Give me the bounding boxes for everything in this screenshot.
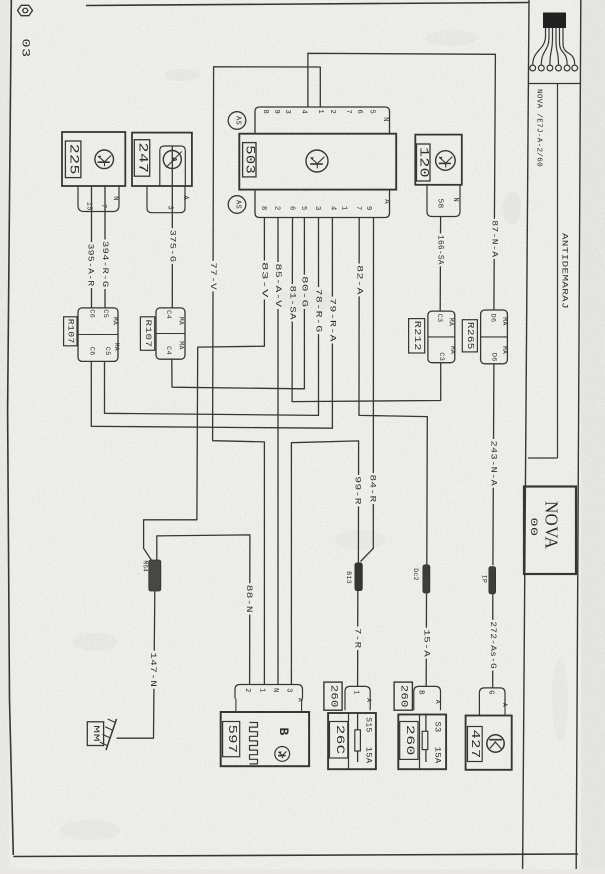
wire 394-R-G from 225 pin 7 to R107 C5 [104, 186, 106, 308]
fuse S3 element [425, 715, 427, 763]
splice M64 [149, 560, 161, 591]
connector R265 shell D6 [481, 310, 508, 364]
503 connector A row shell [255, 190, 390, 218]
NOVA title box [524, 487, 576, 575]
225 indicator circle symbol [95, 150, 114, 169]
R107 mid divider [78, 334, 118, 336]
lamp unit 225 box [62, 132, 125, 186]
wire 395-A-R from 225 pin 15 to R107 C6 [91, 186, 93, 308]
AS marker circle upper [228, 112, 246, 130]
fuse box S15 divider [348, 713, 350, 769]
wire 79-R-A from 503 A pin 4 to R107 C6 [91, 218, 332, 429]
fuse unit 260 label box left [324, 682, 342, 710]
wire 272-As-G from splice IP to unit 427 [492, 594, 494, 689]
wire 82-A from 503 A pin 7 to splice D62 [359, 218, 427, 566]
503 circle symbol [306, 150, 328, 172]
connector icon pin circles and wires [533, 28, 546, 65]
connector bracket of 597 [235, 685, 303, 699]
wire 7-R from splice B13 to fuse S15 [357, 591, 359, 687]
503 connector N row shell [255, 107, 390, 134]
wire 147-N from splice M64 to ground MM [117, 591, 155, 738]
597 motor circle [275, 747, 290, 762]
247 actuation arrow [166, 152, 182, 168]
wire 84-R from 503 A pin 9 to splice B13 [361, 218, 374, 562]
wire 15-A from splice D62 to fuse S3 [425, 594, 427, 687]
R265 label box [462, 320, 477, 352]
connector bracket of 247 [147, 186, 185, 213]
fuse box S3 [398, 715, 446, 770]
120 label box [417, 144, 431, 181]
wire 99-R from splice B13 to relay 597 [291, 441, 358, 685]
connector icon cell divider [529, 83, 581, 85]
597 label box [223, 722, 240, 757]
ground symbol MM [106, 719, 117, 750]
connector bracket of 225 [78, 186, 119, 212]
R107b mid divider [156, 333, 185, 335]
title strip right border [576, 0, 581, 869]
fuse box S3 divider [419, 715, 421, 770]
frame bottom border [13, 854, 578, 857]
connector R212 shell C3 [428, 311, 455, 363]
247 sensor circle [163, 151, 181, 169]
26C label box [330, 722, 348, 759]
wire 77-V from 503 N pin 1 to relay 597 pin 1 [213, 67, 321, 685]
title strip column end tick [528, 457, 558, 459]
427 clock circle K [487, 735, 504, 752]
fuse S15 element [357, 713, 359, 762]
corner hexagon mark [18, 5, 33, 15]
R212 label box [409, 319, 425, 353]
title strip column divider [557, 84, 559, 458]
fuse unit 260 label box right [394, 682, 412, 710]
splice IP [489, 567, 496, 594]
relay 597 box [221, 712, 309, 766]
260 label box inner [400, 722, 418, 760]
wire 81-SA from 503 A pin 6 to connector C3 [292, 218, 441, 402]
fuse box S15 [328, 713, 376, 769]
wire 88-N from splice M64 to relay 597 pin 2 [157, 535, 250, 685]
splice B13 [355, 563, 362, 591]
switch unit 120 box [415, 135, 462, 185]
ground label box MM [87, 722, 103, 746]
frame left border [8, 0, 14, 855]
connector R107 shell C5 C6 [78, 308, 118, 362]
title strip left border [523, 0, 529, 869]
connector R107 shell C4 [156, 308, 185, 359]
connector bracket of fuse S3 [414, 686, 441, 710]
225 label box [65, 141, 81, 178]
splice D62 [423, 565, 430, 593]
wire 80-G from 503 A pin 5 to C4 [172, 218, 305, 389]
connector bracket of 427 [479, 688, 505, 716]
597 coil symbol [250, 723, 258, 764]
unit 427 box [466, 716, 512, 770]
427 label box [468, 727, 483, 762]
scan smudges [60, 30, 568, 840]
247 inner shell [160, 146, 186, 186]
control unit 503 box [239, 134, 396, 190]
sensor unit 247 box [132, 133, 192, 186]
R265 mid divider [481, 336, 508, 338]
247 label box [134, 140, 149, 177]
120 circle symbol [436, 151, 456, 171]
frame top border [86, 3, 529, 6]
wire 375-G from 247 pin 3 to C4 [171, 186, 173, 308]
wire 166-SA from 120 pin 58 to connector C3 [439, 217, 441, 312]
R212 mid divider [428, 336, 455, 338]
connector bracket of fuse S15 [345, 686, 370, 710]
connector icon body [543, 13, 566, 29]
503 A row pins [259, 199, 390, 210]
wire 243-N-A from connector D6 to splice IP [493, 364, 494, 566]
R107b label box [140, 317, 154, 351]
R107 label box [64, 317, 77, 346]
wire 85-A-V from 503 A pin 2 to relay 597 [277, 218, 279, 685]
wire 83-V from 503 A pin 8 to splice M64 [144, 218, 265, 562]
247 sensor wire through circle [171, 146, 173, 186]
wire 78-R-G from 503 A pin 3 to R107 C5 [105, 218, 319, 416]
wire 87-N-A from 503 N pin 4 to connector D6 [308, 53, 496, 310]
503 N row pins [261, 110, 389, 122]
connector bracket of 120 [427, 185, 460, 217]
503 label box [243, 143, 256, 177]
AS marker circle lower [228, 196, 246, 214]
